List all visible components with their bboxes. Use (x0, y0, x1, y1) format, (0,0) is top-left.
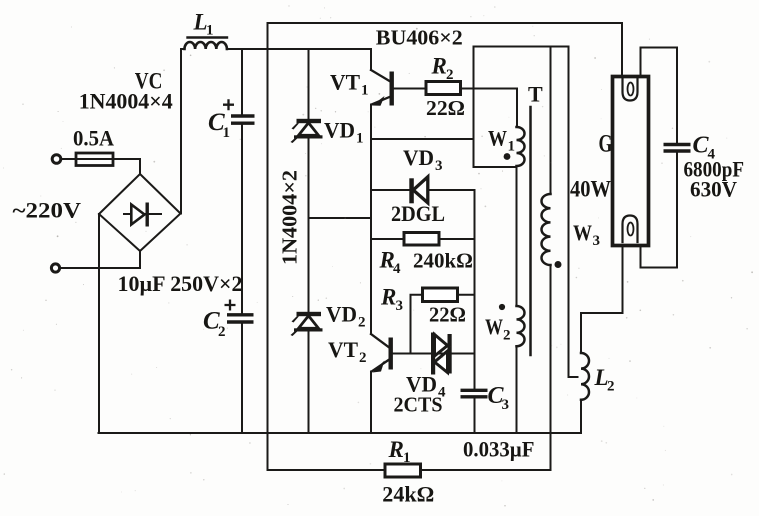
svg-text:2: 2 (218, 324, 226, 340)
svg-text:VT: VT (328, 337, 358, 362)
svg-text:3: 3 (435, 158, 443, 174)
svg-text:22Ω: 22Ω (426, 96, 465, 120)
svg-text:VD: VD (324, 118, 355, 143)
svg-text:3: 3 (396, 298, 404, 314)
svg-text:1: 1 (508, 139, 516, 155)
svg-text:R: R (380, 285, 396, 310)
svg-text:22Ω: 22Ω (429, 302, 466, 326)
svg-text:VT: VT (330, 70, 360, 95)
svg-text:W: W (573, 220, 592, 245)
svg-text:2: 2 (358, 315, 366, 331)
svg-text:2: 2 (446, 67, 454, 83)
svg-text:24kΩ: 24kΩ (382, 481, 434, 506)
svg-text:1: 1 (361, 83, 369, 99)
svg-text:4: 4 (393, 261, 401, 277)
svg-text:2CTS: 2CTS (394, 392, 443, 416)
svg-text:W: W (488, 126, 507, 151)
svg-text:W: W (485, 314, 503, 339)
svg-text:10µF 250V×2: 10µF 250V×2 (118, 271, 243, 296)
svg-text:3: 3 (502, 397, 510, 413)
svg-text:3: 3 (593, 233, 601, 249)
svg-text:G: G (599, 131, 613, 158)
svg-text:R: R (388, 437, 404, 462)
svg-text:40W: 40W (570, 176, 611, 201)
svg-text:0.5A: 0.5A (73, 126, 115, 151)
svg-text:2DGL: 2DGL (391, 201, 445, 226)
svg-text:VD: VD (326, 302, 357, 327)
svg-text:2: 2 (359, 350, 367, 366)
svg-text:2: 2 (607, 379, 615, 395)
svg-text:R: R (431, 54, 447, 79)
svg-text:1: 1 (206, 22, 214, 38)
svg-text:0.033µF: 0.033µF (463, 437, 535, 462)
svg-text:VD: VD (403, 145, 434, 170)
svg-text:1: 1 (403, 450, 411, 466)
svg-text:240kΩ: 240kΩ (413, 249, 473, 273)
svg-text:T: T (528, 82, 543, 107)
svg-text:2: 2 (503, 328, 511, 344)
svg-text:1: 1 (223, 125, 231, 141)
svg-text:1: 1 (356, 131, 364, 147)
svg-text:~220V: ~220V (13, 197, 82, 222)
svg-text:1N4004×4: 1N4004×4 (79, 88, 173, 113)
svg-text:1N4004×2: 1N4004×2 (278, 170, 302, 265)
svg-text:BU406×2: BU406×2 (376, 26, 463, 50)
svg-text:630V: 630V (690, 177, 737, 202)
